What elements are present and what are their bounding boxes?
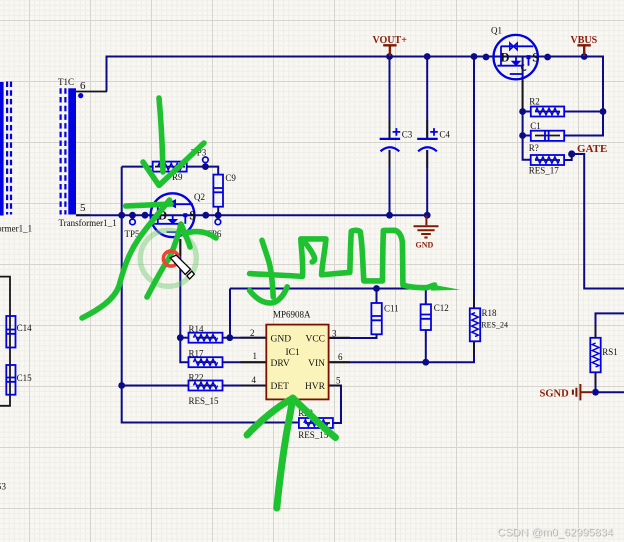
svg-text:2: 2 <box>250 328 255 338</box>
svg-text:5: 5 <box>80 202 86 214</box>
svg-text:RES_15: RES_15 <box>189 396 220 406</box>
svg-text:T1C: T1C <box>58 77 74 87</box>
svg-text:R18: R18 <box>482 308 498 318</box>
svg-text:VBUS: VBUS <box>571 35 598 46</box>
svg-text:GND: GND <box>416 241 434 250</box>
svg-text:R17: R17 <box>189 348 205 358</box>
svg-text:Q2: Q2 <box>194 192 205 202</box>
svg-text:GND: GND <box>271 335 292 345</box>
svg-text:VOUT+: VOUT+ <box>373 35 408 46</box>
svg-text:Transformer1_1: Transformer1_1 <box>0 224 32 234</box>
svg-text:S: S <box>189 208 196 222</box>
svg-text:6: 6 <box>338 352 343 362</box>
svg-text:C3: C3 <box>402 130 413 140</box>
svg-text:4: 4 <box>252 375 257 385</box>
svg-text:C12: C12 <box>434 303 449 313</box>
svg-text:R22: R22 <box>189 372 204 382</box>
svg-text:DET: DET <box>271 382 290 392</box>
svg-text:DRV: DRV <box>271 359 290 369</box>
svg-text:D: D <box>501 50 510 64</box>
svg-text:C15: C15 <box>17 373 33 383</box>
svg-text:GATE: GATE <box>577 143 607 155</box>
svg-text:R14: R14 <box>189 324 205 334</box>
svg-text:R?: R? <box>529 143 539 153</box>
svg-text:6: 6 <box>80 80 86 92</box>
svg-text:C9: C9 <box>225 173 236 183</box>
svg-text:ES3: ES3 <box>0 482 7 492</box>
svg-text:3: 3 <box>332 328 337 338</box>
svg-text:S: S <box>532 50 539 64</box>
svg-text:RES_17: RES_17 <box>529 165 560 175</box>
svg-text:RS1: RS1 <box>602 347 618 357</box>
svg-text:C14: C14 <box>17 323 33 333</box>
svg-text:Transformer1_1: Transformer1_1 <box>59 218 117 228</box>
svg-text:VIN: VIN <box>308 359 325 369</box>
svg-text:MP6908A: MP6908A <box>273 309 311 319</box>
svg-text:IC1: IC1 <box>286 348 301 358</box>
svg-text:C4: C4 <box>439 130 450 140</box>
svg-text:5: 5 <box>336 375 341 385</box>
svg-text:Q1: Q1 <box>491 26 502 36</box>
svg-text:SGND: SGND <box>540 389 570 400</box>
svg-text:RES_24: RES_24 <box>481 321 508 330</box>
svg-text:CSDN @m0_62995834: CSDN @m0_62995834 <box>497 527 613 539</box>
svg-text:HVR: HVR <box>305 382 326 392</box>
svg-text:VCC: VCC <box>305 335 325 345</box>
svg-text:C1: C1 <box>530 121 541 131</box>
svg-text:C11: C11 <box>384 304 399 314</box>
svg-text:R2: R2 <box>529 96 540 106</box>
svg-text:1: 1 <box>253 351 258 361</box>
